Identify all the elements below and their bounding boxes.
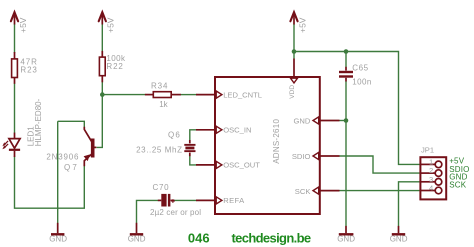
svg-text:R23: R23 — [20, 66, 37, 75]
svg-text:GND: GND — [294, 117, 311, 126]
svg-text:1: 1 — [429, 157, 433, 166]
svg-text:2N3906: 2N3906 — [46, 153, 79, 162]
svg-text:GND: GND — [128, 234, 146, 243]
svg-text:4: 4 — [429, 184, 433, 193]
svg-text:R22: R22 — [106, 62, 123, 71]
svg-text:GND: GND — [337, 234, 355, 243]
svg-text:OSC_OUT: OSC_OUT — [223, 160, 260, 169]
svg-text:JP1: JP1 — [421, 146, 434, 155]
svg-text:ADNS-2610: ADNS-2610 — [272, 119, 281, 164]
svg-text:HLMP-ED80-: HLMP-ED80- — [34, 98, 43, 146]
svg-text:C65: C65 — [352, 64, 368, 73]
svg-text:VDD: VDD — [289, 85, 296, 99]
svg-text:+5V: +5V — [18, 17, 28, 33]
svg-text:R34: R34 — [151, 81, 168, 90]
svg-text:2: 2 — [429, 166, 433, 175]
svg-text:REFA: REFA — [223, 196, 245, 205]
svg-text:3: 3 — [429, 175, 433, 184]
svg-text:OSC_IN: OSC_IN — [223, 126, 251, 135]
svg-text:GND: GND — [49, 234, 67, 243]
svg-text:Q6: Q6 — [168, 130, 181, 139]
svg-text:+5V: +5V — [106, 17, 116, 33]
svg-text:SCK: SCK — [295, 187, 311, 196]
svg-text:Q7: Q7 — [64, 163, 79, 172]
svg-text:+5V: +5V — [298, 17, 308, 33]
svg-text:2µ2 cer or pol: 2µ2 cer or pol — [150, 208, 201, 217]
svg-text:SCK: SCK — [449, 180, 467, 189]
svg-text:046: 046 — [188, 230, 210, 245]
svg-text:C70: C70 — [153, 183, 170, 192]
svg-text:1k: 1k — [159, 100, 168, 109]
svg-text:23..25 MhZ: 23..25 MhZ — [136, 145, 182, 154]
svg-text:LED_CNTL: LED_CNTL — [223, 90, 262, 99]
svg-text:GND: GND — [390, 234, 408, 243]
svg-text:SDIO: SDIO — [292, 152, 311, 161]
svg-text:techdesign.be: techdesign.be — [232, 230, 311, 245]
svg-text:100n: 100n — [352, 77, 371, 86]
